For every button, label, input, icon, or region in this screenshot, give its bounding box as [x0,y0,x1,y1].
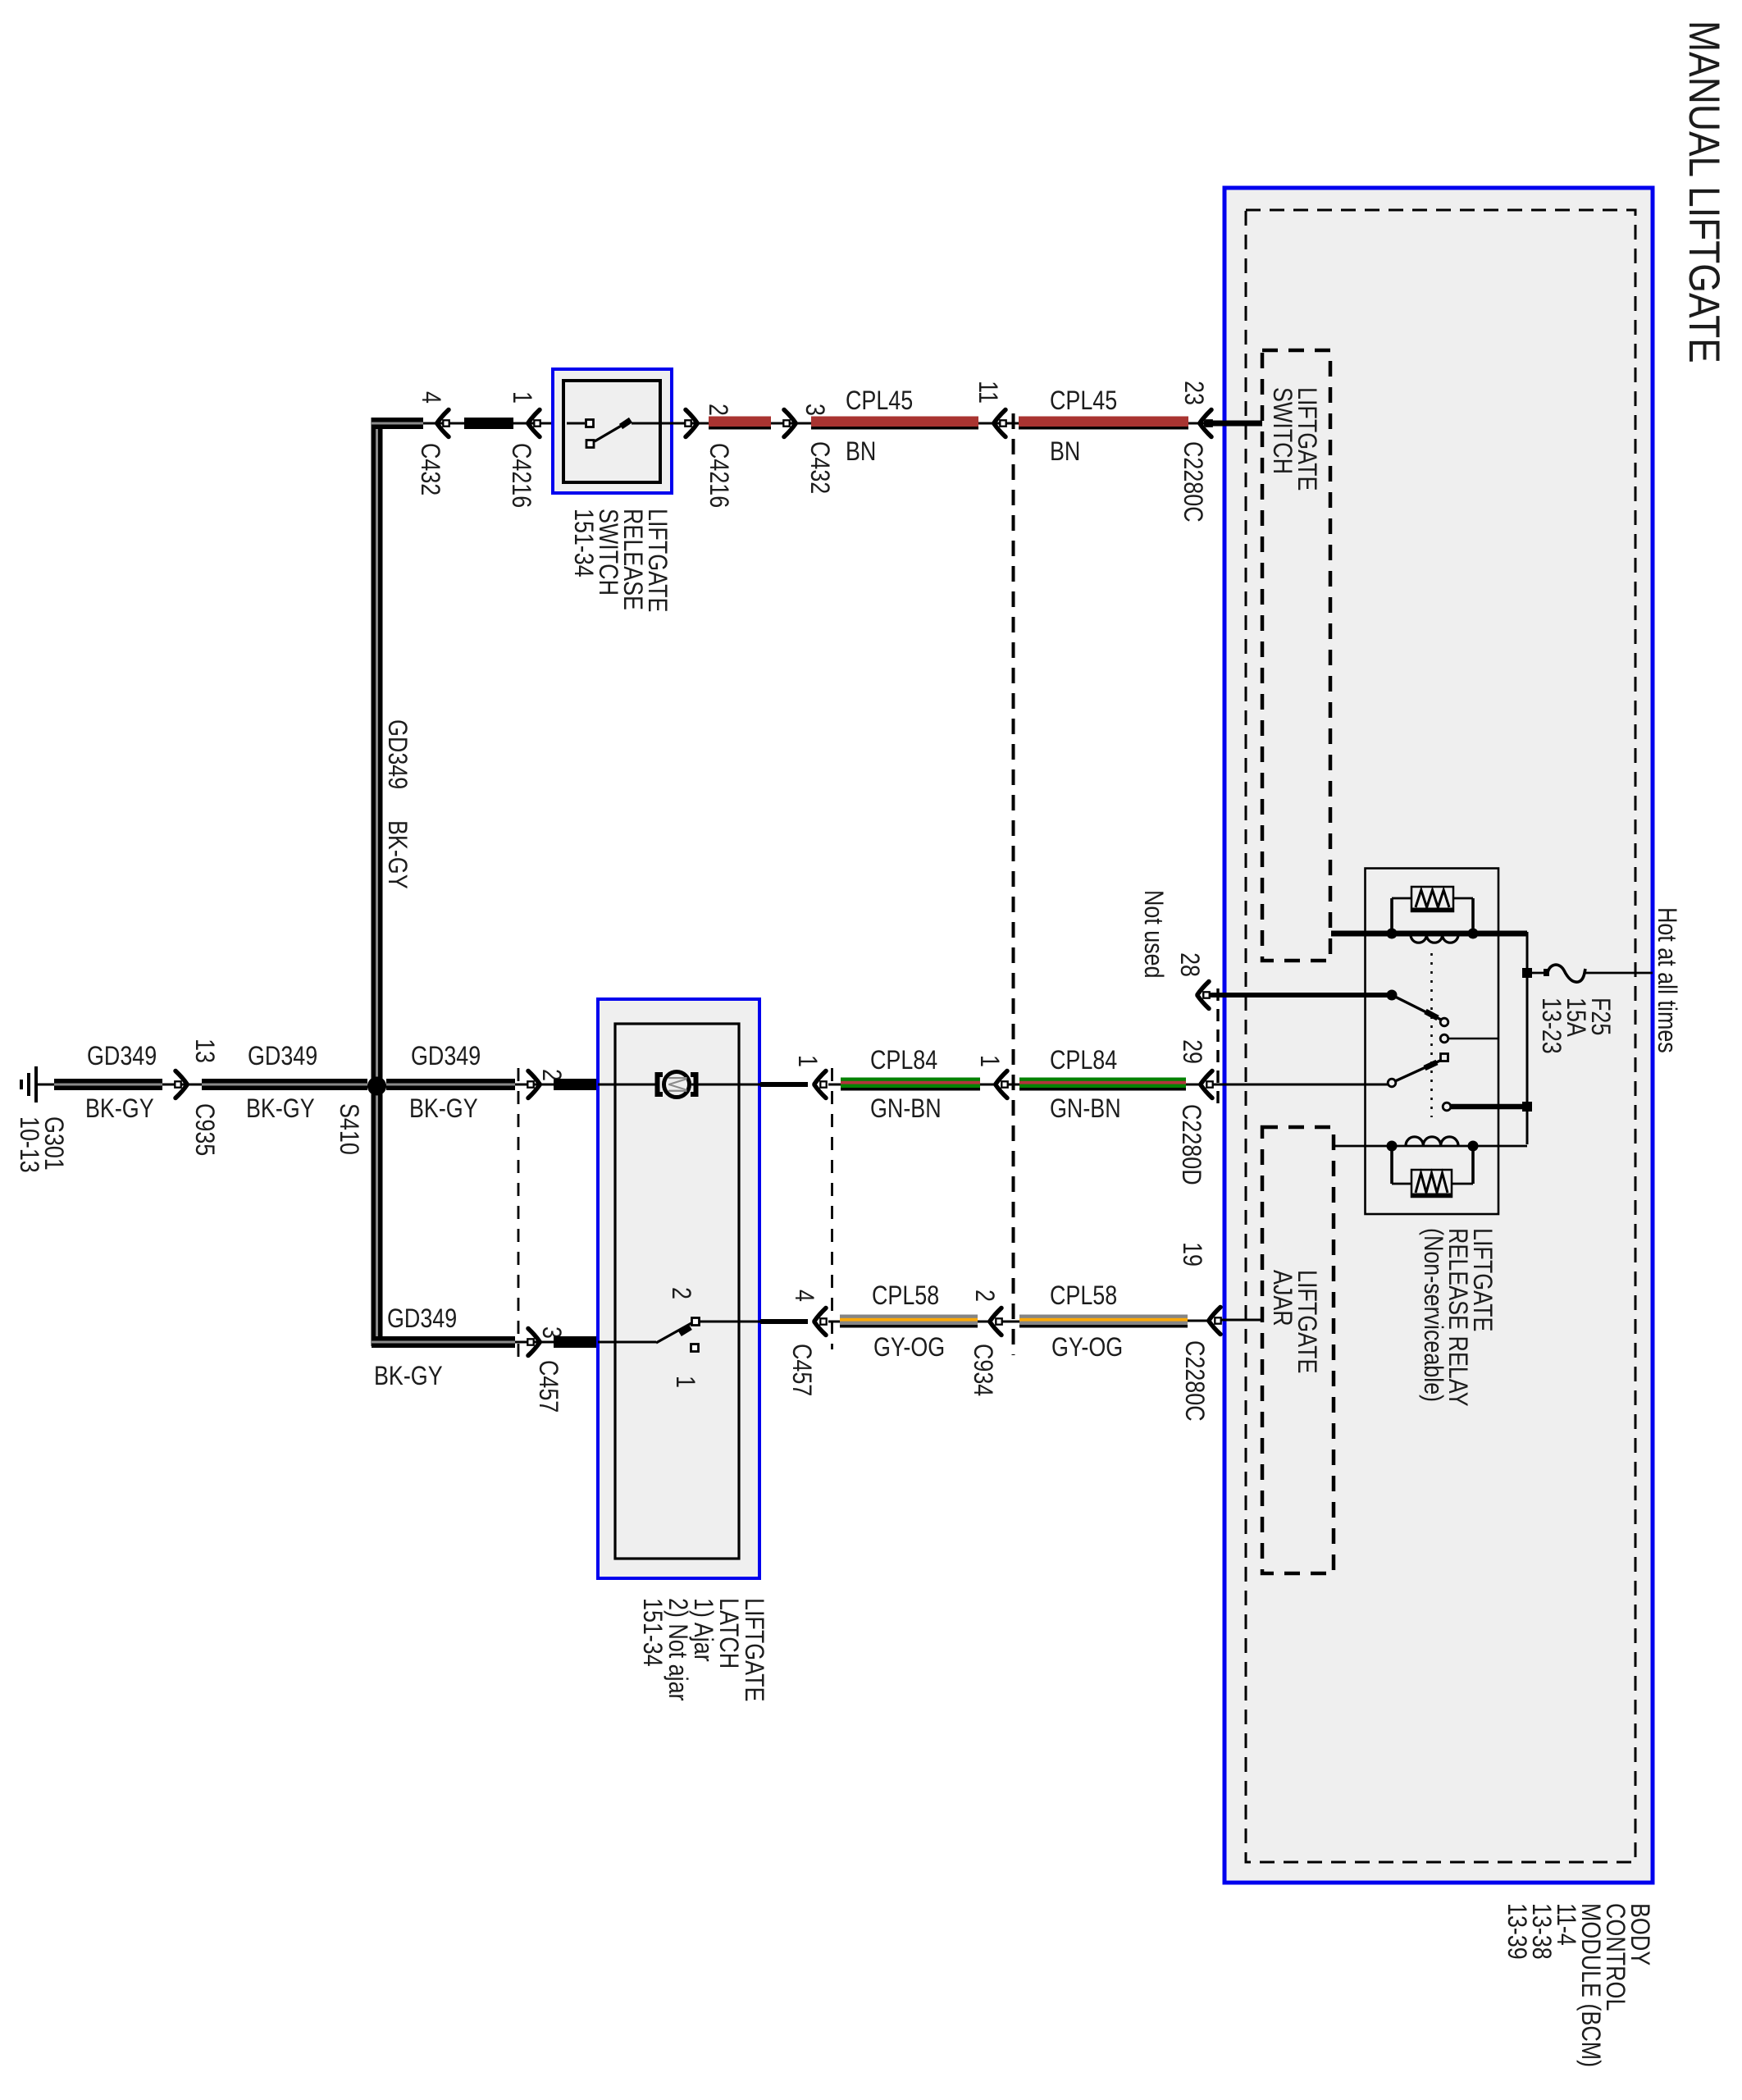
relay feed vertical [1522,932,1532,1144]
connector C4216 pin 1 [506,391,540,508]
svg-text:1: 1 [792,1055,822,1067]
svg-text:C2280C: C2280C [1179,1340,1209,1422]
svg-text:151-34: 151-34 [568,509,598,577]
svg-text:2: 2 [666,1287,695,1299]
svg-text:GD349: GD349 [411,1042,481,1071]
liftgate ajar dashed box [1262,1127,1334,1573]
svg-text:GD349: GD349 [387,1304,457,1334]
svg-text:BK-GY: BK-GY [246,1094,315,1124]
svg-text:GN-BN: GN-BN [870,1094,942,1124]
BCM inner dashed outline [1246,210,1635,1862]
svg-text:GD349: GD349 [248,1042,317,1071]
svg-text:10-13: 10-13 [14,1116,43,1173]
svg-text:C4216: C4216 [506,443,536,508]
svg-text:M: M [662,1075,691,1093]
svg-text:BN: BN [846,437,876,467]
svg-text:S410: S410 [334,1103,363,1155]
svg-text:C457: C457 [787,1344,816,1396]
connector C457 pin 4 [787,1290,840,1396]
relay coil top L1 [1411,935,1458,943]
relay actuator dotted line [1430,953,1433,1117]
svg-text:CPL58: CPL58 [872,1281,939,1311]
title MANUAL LIFTGATE [1680,21,1729,363]
svg-text:151-34: 151-34 [637,1598,667,1667]
svg-text:1: 1 [507,391,536,404]
connector C432 pin 3 [783,404,834,494]
svg-text:CPL58: CPL58 [1050,1281,1117,1311]
wire GD349 lower branch [372,1084,554,1391]
relay resistor lower R2 [1392,1146,1473,1197]
svg-text:4: 4 [789,1290,819,1302]
svg-text:29: 29 [1177,1039,1206,1064]
svg-text:BK-GY: BK-GY [374,1362,443,1391]
splice S410 dot overlay [367,1077,386,1096]
svg-text:GY-OG: GY-OG [1051,1333,1123,1363]
connector C934 dashed line [1012,413,1015,1355]
wire CPL45 BN segment 1 [709,417,771,430]
svg-text:4: 4 [416,391,445,404]
relay armature contacts [1388,995,1498,1087]
wire CPL45 BN segment 2 [811,386,978,467]
latch switch [598,1287,739,1388]
svg-text:C2280C: C2280C [1178,441,1207,523]
connector pin 11 [973,381,1006,436]
wire latch switch out [739,1321,808,1323]
svg-text:AJAR: AJAR [1267,1270,1297,1326]
svg-text:28: 28 [1174,952,1204,977]
connector C432 pin 4 [415,391,449,495]
connector C2280C pin 23 [1178,381,1211,523]
svg-text:BK-GY: BK-GY [85,1094,154,1124]
wire GD349 to splice [202,1042,367,1124]
svg-text:2: 2 [703,404,732,416]
svg-text:C934: C934 [968,1344,997,1396]
svg-text:3: 3 [800,404,829,416]
ground G301 [14,1066,68,1173]
wire CPL84 GN-BN segment 1 [841,1046,980,1124]
svg-text:13-39: 13-39 [1502,1903,1531,1960]
wire black segment [464,418,513,429]
wire CPL58 GY-OG segment 1 [840,1281,978,1363]
svg-text:GY-OG: GY-OG [873,1333,945,1363]
svg-text:SWITCH: SWITCH [1267,387,1297,474]
svg-text:13-23: 13-23 [1536,997,1566,1054]
svg-text:Not used: Not used [1138,890,1168,979]
svg-text:C2280D: C2280D [1176,1104,1206,1185]
relay resistor top R1 [1392,887,1473,934]
liftgate release switch box [553,369,672,612]
wire GD349 splice to latch [386,1042,554,1124]
svg-text:2: 2 [969,1290,999,1302]
svg-text:C457: C457 [533,1360,563,1413]
svg-text:BN: BN [1050,437,1080,467]
svg-text:CPL45: CPL45 [846,386,913,416]
wire GD349 corner vertical [372,418,423,1084]
svg-text:(Non-serviceable): (Non-serviceable) [1418,1228,1448,1402]
svg-text:C432: C432 [805,441,834,494]
wire pin23 to liftgate switch [1204,421,1262,427]
connector C457 pin 3 [527,1326,566,1413]
liftgate release relay box [1366,869,1499,1407]
switch contacts [567,420,685,448]
svg-text:CPL84: CPL84 [1050,1046,1117,1075]
svg-text:CPL45: CPL45 [1050,386,1117,416]
svg-text:GD349: GD349 [87,1042,157,1071]
connector C934 pin 1 [974,1055,1019,1098]
connector C2280C pin 19 [1177,1242,1262,1422]
svg-text:CPL84: CPL84 [870,1046,937,1075]
svg-text:1: 1 [974,1055,1004,1067]
svg-text:BK-GY: BK-GY [382,820,412,889]
relay coil bus from switch [1331,929,1527,939]
connector C457 pin 2 [527,1069,566,1098]
wire latch motor out [739,1084,808,1086]
latch motor M [598,1072,739,1098]
liftgate latch box [598,999,768,1701]
svg-text:13: 13 [189,1039,219,1063]
body control module BCM block [1224,188,1653,1883]
wire into latch switch [542,1336,596,1348]
svg-text:BK-GY: BK-GY [409,1094,478,1124]
svg-text:C4216: C4216 [704,443,733,508]
svg-text:Hot at all times: Hot at all times [1652,907,1681,1053]
BCM label [1502,1903,1654,2067]
fuse F25 15A 13-23 [1532,965,1653,1054]
wire CPL84 GN-BN segment 2 [1019,1046,1186,1124]
wire top run [372,422,1262,425]
svg-text:GD349: GD349 [382,719,412,789]
connector C934 pin 2 [968,1290,1019,1396]
wire CPL45 BN segment 3 [1019,386,1188,467]
connector C457 dashed line left [518,1068,520,1360]
connector C935 pin 13 [175,1039,219,1156]
svg-text:C432: C432 [415,443,445,495]
relay coil lower L2 [1334,1137,1527,1152]
liftgate switch dashed box [1262,350,1330,961]
svg-text:GN-BN: GN-BN [1050,1094,1121,1124]
connector C2280D dashed line [1216,988,1219,1109]
hot at all times label [1652,907,1681,1053]
svg-text:1: 1 [670,1376,700,1388]
connector C4216 pin 2 [685,404,733,508]
relay output contact [1443,1102,1532,1112]
svg-text:C935: C935 [189,1103,219,1156]
connector C2280D pin 29 [1176,1039,1388,1185]
svg-text:23: 23 [1179,381,1208,405]
wire CPL58 GY-OG segment 2 [1019,1281,1188,1363]
svg-text:19: 19 [1177,1242,1206,1267]
not used wire pin 28 [1138,890,1397,1009]
connector C457 dashed line right [831,1068,833,1349]
connector pin 1 left [792,1055,841,1098]
splice S410 [334,1077,386,1155]
wire GD349 ground segment [54,1042,202,1124]
wire into latch motor [542,1079,596,1090]
svg-text:MANUAL LIFTGATE: MANUAL LIFTGATE [1680,21,1729,363]
svg-text:11: 11 [973,381,1002,404]
